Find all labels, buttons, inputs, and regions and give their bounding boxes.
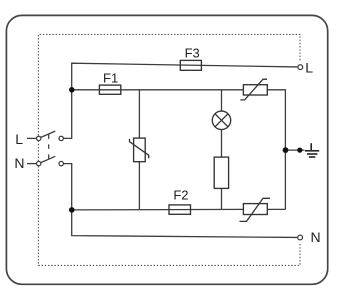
- svg-text:F1: F1: [103, 71, 118, 86]
- svg-text:F2: F2: [173, 188, 188, 203]
- svg-text:N: N: [14, 155, 24, 171]
- svg-text:N: N: [310, 229, 320, 245]
- svg-text:L: L: [305, 60, 313, 76]
- svg-text:L: L: [15, 131, 23, 147]
- svg-text:F3: F3: [185, 45, 200, 60]
